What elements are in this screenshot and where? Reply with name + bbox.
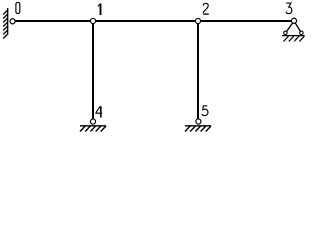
node 4 label — [95, 106, 102, 117]
node 3 label — [286, 3, 292, 14]
faint residue below node 5 support — [198, 130, 199, 132]
faint residue below node 4 support — [93, 130, 94, 132]
node 3 — [291, 18, 296, 23]
node 2 label — [203, 3, 209, 14]
member 1-4 (left column) — [92, 21, 94, 123]
faint residue below node 3 support — [293, 38, 296, 43]
member 0-3 (top beam) — [12, 20, 294, 22]
fixed support at node 4 — [80, 126, 106, 132]
node 1 label — [98, 4, 101, 15]
node 5 label — [202, 106, 208, 116]
node 0 label — [16, 2, 20, 13]
pinned support at node 3 — [282, 21, 305, 42]
node 0 — [10, 19, 15, 24]
node 5 — [196, 119, 201, 124]
fixed support at node 5 — [185, 126, 211, 132]
member 2-5 (right column) — [197, 21, 199, 123]
node 1 — [90, 18, 95, 23]
node 4 — [90, 119, 95, 124]
wall support at node 0 — [3, 8, 8, 39]
node 2 — [195, 18, 200, 23]
